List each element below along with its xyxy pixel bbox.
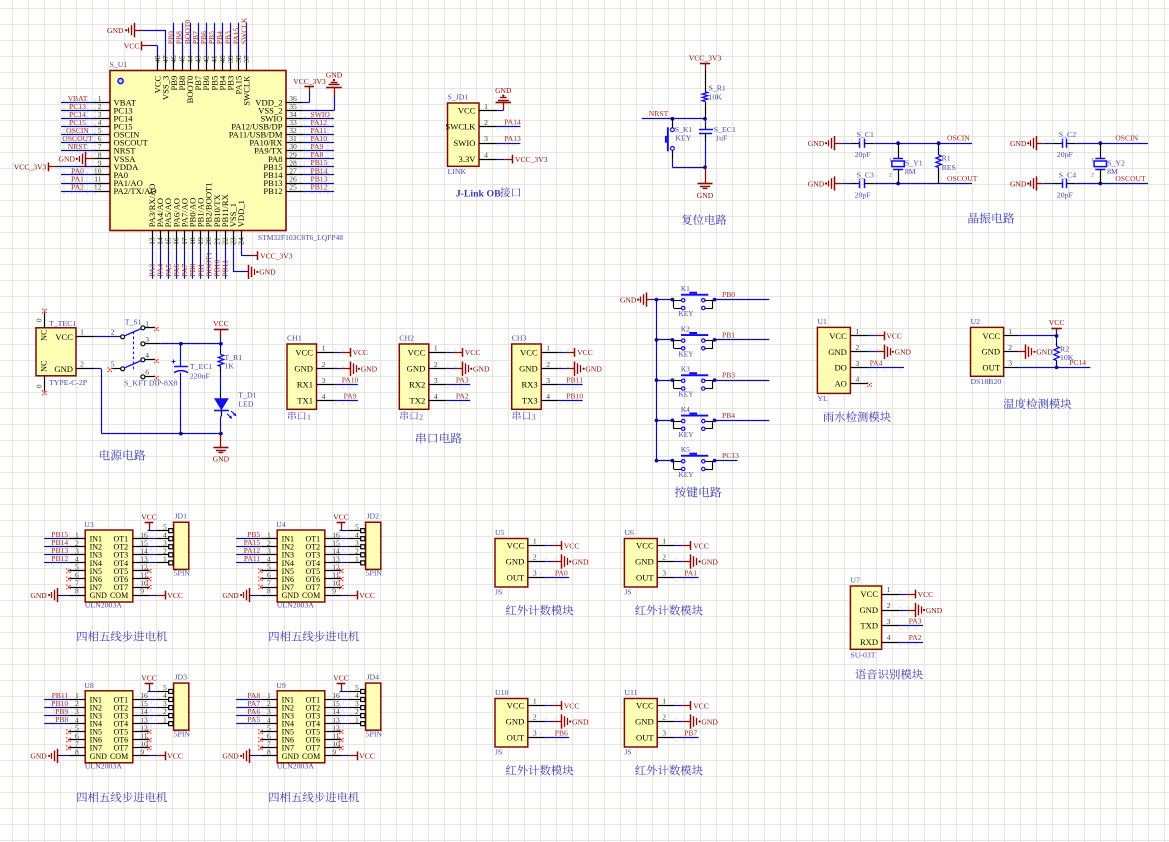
U4 right pin 14 OT3: [306, 546, 342, 559]
svg-text:RXD: RXD: [860, 637, 878, 647]
svg-text:LED: LED: [238, 399, 254, 408]
svg-text:KEY: KEY: [679, 390, 695, 399]
svg-text:PA2: PA2: [909, 633, 922, 642]
svg-text:1: 1: [662, 697, 666, 706]
svg-text:GND: GND: [59, 155, 76, 164]
svg-text:0: 0: [36, 318, 44, 322]
svg-text:3.3V: 3.3V: [459, 154, 477, 164]
crystal S_Y2 8M: [1091, 143, 1125, 183]
connector T_TEC1 TYPE-C-2P: [36, 328, 76, 376]
wire GND to U8 pin 8: [58, 755, 70, 757]
svg-text:20pF: 20pF: [1057, 191, 1074, 200]
U1 left pin 7 NRST: [93, 142, 136, 156]
pin 2 GND: [506, 553, 546, 567]
wire VCC to JD4 pin 5: [340, 691, 349, 693]
U8 left pin 1 IN1: [69, 691, 102, 704]
U4 left pin 4 IN4: [261, 554, 294, 567]
U4 left pin 1 IN1: [261, 530, 294, 543]
power GND bottom right: [249, 265, 277, 279]
svg-text:U2: U2: [971, 317, 981, 326]
pin 1 VCC: [829, 327, 868, 341]
power VCC for JD3 pin 5: [141, 673, 157, 691]
svg-text:3: 3: [662, 569, 666, 578]
wire button to ground rail: [672, 159, 706, 169]
U4 left pin 5 IN5: [261, 563, 294, 576]
no-connect X U9 pin 5: [258, 729, 263, 734]
svg-text:VCC_3V3: VCC_3V3: [14, 163, 47, 172]
U1 left pin 9 VDDA: [93, 158, 139, 172]
pin 4 3.3V: [459, 150, 497, 164]
svg-text:KEY: KEY: [679, 309, 695, 318]
svg-text:1: 1: [887, 585, 891, 594]
U3 right pin 15 OT2: [114, 538, 150, 551]
svg-text:GND: GND: [213, 455, 230, 464]
U1 left pin 3 PC14: [93, 110, 133, 124]
wire PA5 from pin 15: [168, 246, 170, 279]
wire VCC to JD1 pin 5: [148, 530, 157, 532]
svg-text:GND: GND: [859, 605, 878, 615]
svg-text:VCC: VCC: [408, 347, 426, 357]
wire bus to key K2: [657, 339, 674, 341]
JD1 pin terminals: [157, 522, 173, 565]
svg-text:1: 1: [307, 413, 311, 422]
U9 left pin 7 IN7: [261, 739, 294, 752]
wire PA14 (pin 2): [497, 127, 521, 130]
wire PA1 to pin 11: [61, 181, 96, 186]
wire PB14 to U3 IN2: [44, 547, 69, 550]
svg-text:ULN2003A: ULN2003A: [85, 601, 123, 610]
wire PA6 to U9 IN3: [236, 716, 261, 719]
pin 4 RXD: [860, 633, 899, 647]
wire OSCIN row: [873, 141, 972, 145]
U4 right pin 11 OT6: [306, 571, 342, 584]
svg-text:9: 9: [332, 587, 336, 596]
pin 1 VCC: [507, 697, 546, 711]
wire PA4 from pin 14: [160, 246, 162, 279]
svg-text:YL: YL: [817, 394, 828, 403]
wire PA1 (pin 3): [675, 578, 699, 581]
svg-text:5PIN: 5PIN: [174, 729, 191, 738]
svg-text:8M: 8M: [1107, 167, 1118, 176]
title serial circuit: [416, 433, 462, 444]
U3 left pin 6 IN6: [69, 571, 102, 584]
svg-text:GND: GND: [361, 365, 378, 374]
svg-text:TX2: TX2: [410, 396, 426, 406]
pin 4 TX3: [522, 392, 559, 406]
U9 right pin 12 OT5: [306, 723, 342, 736]
svg-text:VCC: VCC: [886, 332, 902, 341]
wire U3 OT1 to JD1 pin 4: [149, 539, 157, 542]
wire PB10 from pin 21: [216, 246, 218, 279]
svg-text:VCC: VCC: [507, 701, 525, 711]
U9 right pin 16 OT1: [306, 691, 342, 704]
svg-text:NC: NC: [40, 360, 49, 372]
svg-text:DO: DO: [834, 363, 846, 373]
svg-text:S_C2: S_C2: [1059, 130, 1076, 139]
U1 bottom pin 20 PB2/BOOT1: [204, 182, 214, 245]
wire PB10 (pin 4): [559, 401, 583, 404]
U1 bottom pin 24 VDD_1: [236, 200, 246, 246]
wire PB7 to pin 43: [198, 23, 200, 56]
capacitor S_C3 20pF: [835, 170, 874, 199]
svg-text:4: 4: [887, 633, 891, 642]
wire U4 OT2 to JD2 pin 3: [341, 547, 349, 550]
TEC1 shell pin bottom: [36, 376, 47, 395]
wire U8 OT3 to JD3 pin 2: [149, 716, 157, 719]
U1 top pin 47 VSS_3: [161, 55, 171, 100]
U4 left pin 3 IN3: [261, 546, 294, 559]
svg-text:GND: GND: [808, 179, 825, 188]
wire PB6 (pin 3): [545, 738, 569, 741]
svg-text:VCC_3V3: VCC_3V3: [293, 77, 326, 86]
power GND (pin 2): [562, 714, 589, 728]
wire U4 COM to VCC: [341, 595, 357, 597]
capacitor T_EC1 220uF: [172, 344, 213, 434]
svg-text:JD3: JD3: [175, 672, 188, 681]
power GND bottom of reset circuit: [697, 167, 714, 200]
svg-text:3: 3: [887, 617, 891, 626]
svg-text:GND: GND: [473, 365, 490, 374]
U1 bottom pin 17 PA7/AO: [179, 198, 189, 246]
svg-text:ULN2003A: ULN2003A: [277, 762, 315, 771]
svg-text:S_R1: S_R1: [709, 84, 726, 93]
svg-text:5: 5: [111, 359, 115, 368]
push button K1 KEY: [671, 284, 717, 318]
power VCC_3V3 (pin 4): [513, 155, 548, 164]
title four-phase five-wire stepper motor: [77, 631, 167, 641]
U4 left pin 6 IN6: [261, 571, 294, 584]
svg-text:GND: GND: [1010, 179, 1027, 188]
power VCC for JD1 pin 5: [141, 513, 157, 531]
wire PB12 from pin 25: [303, 189, 335, 194]
svg-text:U4: U4: [276, 520, 286, 529]
wire PA6 from pin 16: [176, 246, 178, 279]
wire PB13 from pin 26: [303, 181, 335, 186]
U3 left pin 2 IN2: [69, 538, 102, 551]
switch pin 4 no-connect: [145, 359, 159, 364]
U3 right pin 14 OT3: [114, 546, 150, 559]
no-connect X U9 pin 7: [258, 746, 263, 751]
wire U9 OT1 to JD4 pin 4: [341, 700, 349, 703]
wire PA12 to U4 IN3: [236, 555, 261, 558]
U9 right pin 9 COM: [302, 747, 341, 760]
wire to GND above (pin 1): [497, 103, 504, 111]
svg-text:9: 9: [140, 587, 144, 596]
U8 right pin 10 OT7: [114, 739, 150, 752]
pin 2 GND: [294, 360, 334, 374]
svg-text:OUT: OUT: [507, 573, 525, 583]
no-connect X U4 pin 11: [339, 577, 344, 582]
no-connect X U9 pin 10: [339, 746, 344, 751]
power VCC (pin 1): [691, 541, 709, 550]
U1 right pin 27 PB14: [263, 166, 302, 180]
svg-text:U1: U1: [817, 317, 827, 326]
U9 left pin 3 IN3: [261, 707, 294, 720]
U1 right pin 32 PA11/USB/DM: [229, 126, 303, 140]
wire to VCC (pin 1): [446, 350, 462, 353]
svg-text:S_C1: S_C1: [857, 130, 874, 139]
svg-text:VCC: VCC: [693, 541, 709, 550]
svg-text:3: 3: [434, 376, 438, 385]
U1 right pin 26 PB13: [263, 174, 302, 188]
push button K3 KEY: [671, 365, 717, 399]
pin 2 GND: [407, 360, 447, 374]
svg-text:2: 2: [662, 553, 666, 562]
svg-text:JS: JS: [624, 748, 631, 757]
wire GND to key bus: [653, 299, 657, 301]
power VCC_3V3 bottom right: [258, 251, 293, 260]
wire U3 OT4 to JD1 pin 1: [149, 563, 157, 566]
power GND for S_C1: [808, 136, 835, 150]
wire to VCC (pin 1): [868, 334, 884, 336]
IC S_U1 STM32F103C8T6_LQFP48: [110, 71, 286, 231]
pin 2 GND: [635, 713, 675, 727]
wire PC15 to pin 4: [61, 125, 96, 130]
svg-text:4: 4: [546, 392, 550, 401]
U1 right pin 35 VSS_2: [258, 102, 302, 116]
switch pin 1 no-connect: [145, 327, 159, 332]
U3 left pin 3 IN3: [69, 546, 102, 559]
svg-text:20pF: 20pF: [855, 191, 872, 200]
no-connect X U4 pin 7: [258, 585, 263, 590]
U4 left pin 2 IN2: [261, 538, 294, 551]
U1 bottom pin 14 PA4/AO: [155, 198, 165, 246]
wire GND to U9 pin 8: [250, 755, 262, 757]
title crystal circuit: [968, 213, 1014, 224]
push button K2 KEY: [671, 324, 717, 358]
svg-text:AO: AO: [834, 379, 846, 389]
label serial port 3: [513, 411, 536, 421]
svg-text:VCC: VCC: [167, 752, 183, 761]
module U2 DS18B20: [971, 327, 1004, 376]
wire VCC to JD2 pin 5: [340, 530, 349, 532]
U4 left pin 7 IN7: [261, 579, 294, 592]
wire PA10 (pin 3): [334, 385, 358, 388]
svg-text:VCC: VCC: [564, 541, 580, 550]
power GND (pin 2): [885, 345, 912, 359]
svg-text:VCC: VCC: [636, 541, 654, 551]
wire PB3 to pin 39: [230, 23, 232, 56]
capacitor S_C2 20pF: [1037, 130, 1076, 159]
wire PA8 from pin 29: [303, 157, 335, 162]
wire U9 COM to VCC: [341, 755, 357, 757]
svg-text:4: 4: [856, 375, 860, 384]
svg-text:2: 2: [533, 713, 537, 722]
svg-text:K2: K2: [681, 324, 690, 333]
svg-text:K3: K3: [681, 365, 690, 374]
wire OSCOUT to pin 6: [61, 141, 96, 146]
U8 left pin 6 IN6: [69, 731, 102, 744]
U1 top pin 43 PB7: [193, 55, 203, 90]
svg-text:JS: JS: [495, 748, 502, 757]
wire U8 OT2 to JD3 pin 3: [149, 708, 157, 711]
wire PB11 from pin 22: [225, 246, 227, 279]
svg-text:GND: GND: [90, 752, 108, 761]
wire U4 OT4 to JD2 pin 1: [341, 563, 349, 566]
U1 top pin 39 PB3: [226, 55, 236, 90]
svg-text:GND: GND: [981, 347, 1000, 357]
svg-text:PA3: PA3: [456, 376, 469, 385]
svg-text:2: 2: [434, 360, 438, 369]
capacitor S_C1 20pF: [835, 130, 874, 159]
svg-text:GND: GND: [294, 364, 313, 374]
U1 top pin 46 PB9: [169, 55, 179, 90]
JD3 pin terminals: [157, 683, 173, 726]
wire U3 COM to VCC: [149, 595, 165, 597]
svg-text:2: 2: [322, 360, 326, 369]
svg-text:U8: U8: [84, 681, 94, 690]
no-connect X U3 pin 10: [147, 585, 152, 590]
wire VCC_3V3 to U1 pin 9 VDDA: [49, 166, 94, 168]
svg-text:PA1: PA1: [684, 568, 697, 577]
U3 right pin 9 COM: [110, 587, 149, 600]
svg-text:GND: GND: [30, 591, 47, 600]
title four-phase five-wire stepper motor: [77, 792, 167, 802]
svg-text:GND: GND: [222, 591, 239, 600]
U8 left pin 8 GND: [69, 747, 107, 760]
pin 1 VCC: [520, 344, 559, 358]
svg-text:10K: 10K: [709, 93, 723, 102]
wire to GND (pin 2): [545, 719, 561, 722]
U3 left pin 7 IN7: [69, 579, 102, 592]
no-connect X U4 pin 5: [258, 569, 263, 574]
power GND (pin 2): [351, 362, 378, 376]
svg-text:VCC: VCC: [507, 541, 525, 551]
label serial port 2: [400, 411, 423, 421]
svg-text:GND: GND: [572, 717, 589, 726]
svg-text:GND: GND: [808, 139, 825, 148]
svg-text:PA0: PA0: [555, 568, 568, 577]
svg-text:JD1: JD1: [175, 512, 188, 521]
svg-text:PB12: PB12: [311, 182, 328, 191]
wire bus to key K3: [657, 380, 674, 382]
wire U8 OT4 to JD3 pin 1: [149, 724, 157, 727]
svg-text:1: 1: [856, 327, 860, 336]
IC U4 ULN2003A: [277, 530, 325, 602]
wire SWIO from pin 34: [303, 117, 335, 121]
power GND of U8: [30, 749, 57, 763]
no-connect X U8 pin 6: [66, 737, 71, 742]
wire NRST rail: [642, 117, 707, 121]
svg-text:8: 8: [75, 747, 79, 756]
power VCC (pin 1): [916, 590, 934, 599]
svg-text:4: 4: [145, 351, 149, 360]
pin 2 GND: [519, 360, 559, 374]
wire U9 OT2 to JD4 pin 3: [341, 708, 349, 711]
pin 4 TX1: [297, 392, 334, 406]
wire PA3 (pin 3): [899, 626, 923, 629]
U1 left pin 1 VBAT: [93, 94, 136, 108]
svg-text:VCC: VCC: [465, 348, 481, 357]
wire key K3 to PB3: [713, 380, 769, 382]
label serial port 1: [288, 411, 311, 421]
svg-text:8: 8: [267, 587, 271, 596]
capacitor S_C4 20pF: [1037, 170, 1076, 199]
wire OSCOUT row: [873, 182, 972, 186]
svg-text:1: 1: [163, 554, 167, 563]
U1 right pin 28 PB15: [263, 158, 302, 172]
svg-text:20pF: 20pF: [1057, 150, 1074, 159]
power VCC of power circuit: [213, 319, 229, 344]
power GND for S_C2: [1010, 136, 1037, 150]
svg-text:3: 3: [1008, 359, 1012, 368]
svg-text:ULN2003A: ULN2003A: [277, 601, 315, 610]
svg-text:S_KFT DIP-8X8: S_KFT DIP-8X8: [124, 379, 177, 388]
no-connect X U8 pin 10: [147, 746, 152, 751]
wire key K5 to PC13: [713, 460, 738, 462]
svg-text:6: 6: [145, 367, 149, 376]
pin 3 SWIO: [454, 134, 497, 148]
wire PB5 to U4 IN1: [236, 539, 261, 542]
svg-text:GND: GND: [30, 752, 47, 761]
title four-phase five-wire stepper motor: [269, 631, 359, 641]
svg-text:3: 3: [856, 359, 860, 368]
U9 right pin 13 OT4: [306, 715, 342, 728]
svg-text:3: 3: [322, 376, 326, 385]
svg-text:2: 2: [546, 360, 550, 369]
wire to VCC (pin 1): [559, 350, 575, 353]
svg-text:KEY: KEY: [679, 430, 695, 439]
power GND of U9: [222, 749, 249, 763]
svg-text:RX2: RX2: [409, 380, 425, 390]
module U11 infrared counter JS: [624, 699, 657, 748]
svg-text:T_S1: T_S1: [125, 318, 142, 327]
svg-text:4: 4: [484, 150, 488, 159]
svg-text:VCC: VCC: [295, 347, 313, 357]
svg-text:GND: GND: [635, 717, 654, 727]
svg-text:SWCLK: SWCLK: [240, 17, 249, 44]
svg-text:2: 2: [80, 360, 84, 369]
U1 left pin 10 PA0: [93, 166, 128, 180]
U4 left pin 8 GND: [261, 587, 299, 600]
svg-text:GND: GND: [1010, 139, 1027, 148]
svg-text:PA10: PA10: [342, 376, 359, 385]
U1 right pin 30 PA9/TX: [254, 142, 302, 156]
wire U2 OUT to PC14: [1018, 366, 1090, 370]
wire PA5 to U9 IN4: [236, 724, 261, 727]
svg-text:VCC_3V3: VCC_3V3: [689, 54, 722, 63]
power VCC at U4 COM: [358, 591, 375, 600]
wire to VCC (pin 1): [545, 543, 561, 546]
wire to VCC (pin 1): [675, 543, 691, 546]
svg-text:8M: 8M: [905, 167, 916, 176]
svg-text:GND: GND: [926, 606, 943, 615]
svg-text:T_R1: T_R1: [224, 353, 242, 362]
wire PC13 to pin 2: [61, 109, 96, 113]
wire VCC to JD3 pin 5: [148, 691, 157, 693]
U8 right pin 9 COM: [110, 747, 149, 760]
wire PB14 from pin 27: [303, 173, 335, 178]
wire PA4 (pin 3): [868, 368, 904, 371]
svg-text:U10: U10: [495, 688, 509, 697]
wire VBAT to pin 1: [61, 101, 96, 105]
power GND at U1 pin 8 VSSA: [59, 152, 94, 166]
svg-text:9: 9: [332, 747, 336, 756]
svg-text:SU-03T: SU-03T: [850, 650, 875, 659]
svg-text:PB3: PB3: [722, 371, 735, 380]
svg-text:VCC: VCC: [458, 106, 476, 116]
wire PA2 to pin 12: [61, 189, 96, 194]
svg-text:TYPE-C-2P: TYPE-C-2P: [49, 378, 88, 387]
svg-text:PA2: PA2: [71, 182, 84, 191]
power GND of U4: [222, 588, 249, 602]
U3 right pin 12 OT5: [114, 563, 150, 576]
U9 left pin 4 IN4: [261, 715, 294, 728]
title power circuit: [100, 450, 145, 461]
svg-text:4: 4: [434, 392, 438, 401]
svg-text:GND: GND: [572, 557, 589, 566]
wire TEC1 GND down to bottom rail: [95, 369, 102, 434]
